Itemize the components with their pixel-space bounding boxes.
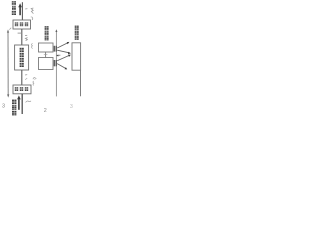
wire bottom segment [21, 94, 23, 114]
box4 label text [15, 22, 29, 26]
arrow input light up [17, 95, 21, 109]
wire top segment [21, 2, 23, 20]
fiber block (narrow box right) [72, 43, 81, 70]
ref mark near box2 corner [33, 78, 36, 86]
ref numeral 5 with leader [25, 8, 33, 14]
laser diode block LD2 (bottom rect) [39, 58, 54, 70]
dimension line left with arrows [7, 31, 9, 96]
beam ray A up-right with arrowhead [57, 43, 67, 48]
small arrow mark on mid line [58, 54, 61, 56]
box polarizer bottom (element 2) [13, 85, 31, 94]
box crystal middle (element 3) [15, 45, 29, 70]
beam ray B converge with arrowhead [57, 50, 69, 53]
ref numeral 1 leader tilde [26, 101, 31, 103]
ref numeral 4 with leader [25, 35, 28, 40]
laser diode block LD1 (top rect) [39, 43, 54, 52]
dimension arrowhead bottom [7, 94, 9, 97]
wire box4 to box3 [21, 29, 23, 45]
ref numeral 2 leader [25, 78, 27, 80]
top arrowhead of mid line [55, 29, 57, 32]
label detector (vertical kanji, right) [75, 25, 79, 40]
beam ray C converge with arrowhead [57, 55, 69, 60]
ref numeral 2 dash [25, 74, 27, 76]
arrow output light up [18, 3, 22, 15]
tick above dimension top [9, 28, 11, 30]
label oscillator (vertical kanji, mid) [44, 26, 48, 41]
beam ray D down-right with arrowhead [57, 64, 65, 69]
tick on wire [18, 32, 22, 34]
box polarizer top (element 4) [13, 20, 31, 29]
line down from fiber block [80, 70, 82, 96]
label input-light (vertical kanji, bottom-left) [12, 99, 17, 115]
wire box3 to box2 [21, 70, 23, 85]
svg-text:2: 2 [44, 108, 47, 114]
ref mark near LD2 lower-left [34, 78, 36, 79]
ref mark near box4 corner [31, 17, 33, 20]
long line mid with small top arrow [55, 31, 57, 97]
dimension arrowhead top [7, 29, 9, 32]
label output-light (vertical kanji, top-left) [12, 1, 17, 15]
box2 label text [15, 87, 29, 91]
ref numeral 3 with leader (right of box3 top) [31, 43, 32, 48]
svg-text:3: 3 [70, 104, 73, 110]
box3 vertical label text [19, 48, 24, 68]
svg-text:3: 3 [2, 104, 5, 110]
LD2 facet bars [54, 60, 55, 66]
LD1 facet bars [54, 46, 55, 52]
connector between LD blocks [45, 52, 47, 58]
